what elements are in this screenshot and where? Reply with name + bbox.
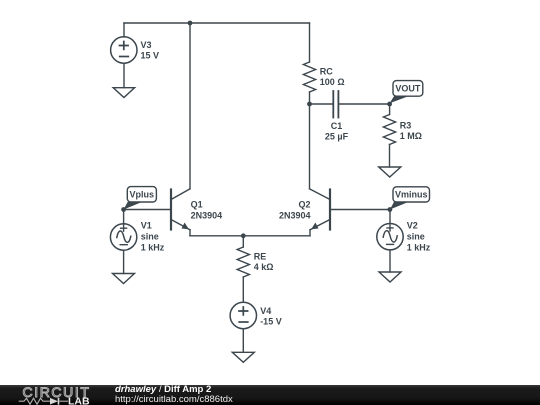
svg-text:LAB: LAB — [68, 397, 90, 405]
svg-text:VOUT: VOUT — [395, 84, 421, 94]
svg-text:4 kΩ: 4 kΩ — [254, 262, 274, 272]
svg-text:V1: V1 — [141, 221, 152, 231]
svg-text:1 kHz: 1 kHz — [407, 243, 431, 253]
svg-text:RE: RE — [254, 252, 267, 262]
svg-text:1 MΩ: 1 MΩ — [400, 131, 422, 141]
svg-text:R3: R3 — [400, 121, 412, 131]
svg-text:V3: V3 — [141, 40, 152, 50]
svg-text:V4: V4 — [260, 306, 271, 316]
svg-text:sine: sine — [141, 232, 159, 242]
svg-text:V2: V2 — [407, 221, 418, 231]
svg-text:RC: RC — [320, 67, 333, 77]
svg-text:1 kHz: 1 kHz — [141, 243, 165, 253]
svg-text:2N3904: 2N3904 — [191, 211, 223, 221]
svg-text:Q1: Q1 — [191, 200, 203, 210]
svg-text:C1: C1 — [331, 121, 343, 131]
svg-text:100 Ω: 100 Ω — [320, 77, 345, 87]
svg-text:15 V: 15 V — [141, 50, 160, 60]
svg-text:sine: sine — [407, 232, 425, 242]
svg-text:2N3904: 2N3904 — [279, 211, 311, 221]
svg-text:Vplus: Vplus — [130, 189, 155, 199]
svg-text:25 µF: 25 µF — [325, 131, 349, 141]
svg-text:-15 V: -15 V — [260, 317, 282, 327]
svg-text:Vminus: Vminus — [395, 190, 428, 200]
svg-text:Q2: Q2 — [298, 200, 310, 210]
